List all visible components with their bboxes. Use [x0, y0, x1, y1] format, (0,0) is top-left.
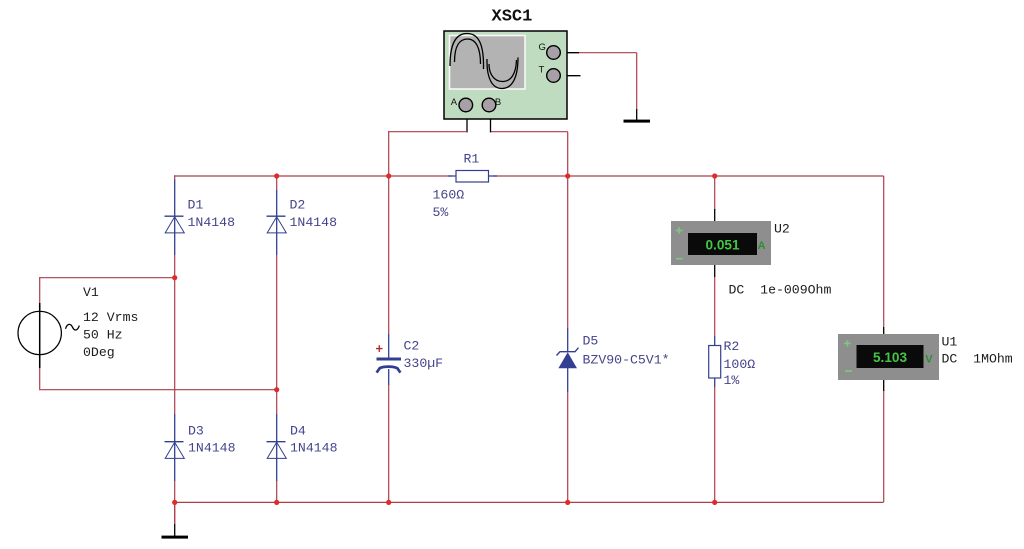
svg-text:DC 1MOhm: DC 1MOhm [942, 352, 1013, 367]
svg-text:330µF: 330µF [404, 356, 444, 371]
svg-text:U2: U2 [774, 222, 790, 237]
svg-text:XSC1: XSC1 [492, 8, 533, 27]
svg-text:160Ω: 160Ω [433, 188, 465, 203]
svg-text:50 Hz: 50 Hz [83, 328, 123, 343]
svg-text:D5: D5 [583, 334, 599, 349]
svg-text:100Ω: 100Ω [724, 357, 756, 372]
svg-text:U1: U1 [942, 335, 958, 350]
svg-text:D2: D2 [290, 198, 306, 213]
svg-text:A: A [451, 97, 458, 108]
svg-text:1%: 1% [724, 373, 740, 388]
svg-text:5.103: 5.103 [873, 350, 907, 365]
svg-text:D1: D1 [188, 198, 204, 213]
svg-text:0.051: 0.051 [705, 238, 739, 253]
svg-text:T: T [539, 64, 545, 75]
svg-text:V: V [925, 353, 933, 365]
svg-text:C2: C2 [404, 339, 420, 354]
svg-text:1N4148: 1N4148 [188, 441, 236, 456]
svg-text:12 Vrms: 12 Vrms [83, 310, 138, 325]
svg-text:R1: R1 [464, 152, 480, 167]
svg-text:D3: D3 [188, 424, 204, 439]
svg-text:0Deg: 0Deg [83, 345, 115, 360]
svg-text:V1: V1 [83, 285, 99, 300]
svg-text:B: B [495, 97, 501, 108]
svg-text:DC 1e-009Ohm: DC 1e-009Ohm [729, 283, 832, 298]
svg-text:5%: 5% [433, 205, 449, 220]
svg-text:G: G [539, 42, 546, 53]
svg-text:D4: D4 [290, 424, 306, 439]
svg-text:1N4148: 1N4148 [188, 215, 236, 230]
svg-text:1N4148: 1N4148 [290, 441, 338, 456]
svg-text:A: A [758, 240, 766, 252]
svg-text:BZV90-C5V1*: BZV90-C5V1* [583, 353, 670, 368]
svg-text:1N4148: 1N4148 [290, 215, 338, 230]
svg-text:R2: R2 [724, 339, 740, 354]
